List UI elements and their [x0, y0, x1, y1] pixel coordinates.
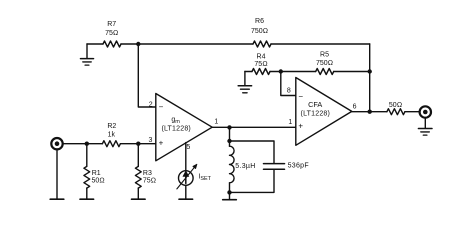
svg-text:−: −	[159, 103, 164, 112]
node H	[85, 142, 89, 146]
svg-text:R2: R2	[107, 123, 116, 130]
svg-text:R7: R7	[107, 21, 116, 28]
svg-text:2: 2	[149, 102, 153, 109]
resistor 50ohm output	[387, 109, 405, 115]
svg-text:CFA: CFA	[308, 100, 322, 109]
resistor R2	[102, 141, 120, 147]
wire	[270, 71, 316, 73]
svg-text:75Ω: 75Ω	[143, 177, 156, 184]
ground	[132, 198, 146, 200]
svg-text:−: −	[298, 92, 303, 101]
svg-text:gm: gm	[171, 116, 180, 125]
svg-text:R6: R6	[255, 18, 264, 25]
node I	[136, 142, 140, 146]
ground	[179, 198, 193, 200]
svg-text:1: 1	[288, 119, 292, 126]
svg-text:+: +	[298, 122, 303, 131]
svg-text:+: +	[159, 139, 164, 148]
node D	[227, 125, 231, 129]
capacitor C1	[264, 164, 285, 170]
svg-text:R5: R5	[320, 51, 329, 58]
svg-text:R1: R1	[92, 170, 101, 177]
ground	[81, 44, 94, 65]
svg-text:R4: R4	[257, 53, 266, 60]
svg-text:50Ω: 50Ω	[389, 102, 402, 109]
ground	[80, 198, 94, 200]
wire	[230, 170, 275, 193]
node E	[227, 139, 231, 143]
svg-text:6: 6	[353, 103, 357, 110]
wire	[229, 127, 231, 141]
svg-text:1k: 1k	[108, 132, 116, 139]
svg-text:ISET: ISET	[198, 174, 211, 183]
node C	[368, 69, 372, 73]
wire	[121, 43, 253, 45]
svg-text:750Ω: 750Ω	[316, 60, 333, 67]
node B	[279, 69, 283, 73]
wire	[120, 143, 155, 145]
wire	[271, 43, 370, 45]
ground	[418, 119, 432, 135]
resistor R3	[135, 144, 141, 199]
svg-text:R3: R3	[143, 170, 152, 177]
svg-text:5: 5	[186, 144, 190, 151]
svg-text:50Ω: 50Ω	[92, 177, 105, 184]
node A	[136, 42, 140, 46]
node G	[368, 110, 372, 114]
current source ISET	[177, 143, 197, 199]
resistor R5	[316, 69, 334, 75]
svg-text:1: 1	[214, 119, 218, 126]
resistor R1	[84, 144, 90, 199]
wire	[352, 111, 387, 113]
wire	[281, 72, 296, 96]
resistor R7	[103, 41, 121, 47]
svg-text:3: 3	[148, 137, 152, 144]
ground	[50, 198, 64, 200]
wire	[245, 71, 252, 73]
ground	[223, 199, 237, 201]
inductor L1	[230, 141, 235, 200]
svg-text:8: 8	[287, 88, 291, 95]
wire	[405, 111, 420, 113]
svg-text:5.3µH: 5.3µH	[235, 163, 255, 170]
wire	[138, 44, 156, 107]
svg-text:75Ω: 75Ω	[254, 61, 267, 68]
svg-text:750Ω: 750Ω	[251, 28, 268, 35]
wire	[87, 43, 103, 45]
wire	[334, 71, 370, 73]
connector J1	[51, 138, 62, 149]
op-amp U2	[296, 78, 352, 146]
wire	[230, 141, 275, 163]
wire	[212, 126, 296, 128]
svg-text:(LT1228): (LT1228)	[301, 111, 330, 118]
resistor R4	[252, 69, 270, 75]
svg-text:536pF: 536pF	[288, 163, 309, 170]
node F	[227, 190, 231, 194]
wire	[369, 44, 371, 112]
connector J2	[420, 106, 431, 117]
resistor R6	[253, 41, 271, 47]
wire	[56, 150, 58, 199]
svg-text:75Ω: 75Ω	[105, 30, 118, 37]
wire	[64, 143, 103, 145]
op-amp U1	[156, 94, 212, 161]
value label R7	[92, 18, 403, 184]
pin numbers and polarity	[148, 88, 356, 151]
ground	[238, 72, 251, 93]
svg-text:(LT1228): (LT1228)	[161, 126, 190, 133]
